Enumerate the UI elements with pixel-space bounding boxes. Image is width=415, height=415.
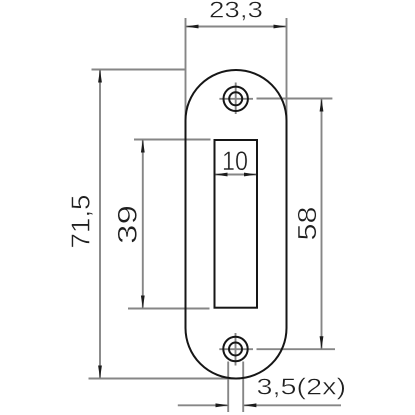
svg-text:3,5(2x): 3,5(2x) <box>257 374 347 400</box>
svg-text:10: 10 <box>222 146 248 176</box>
svg-text:23,3: 23,3 <box>209 0 263 23</box>
svg-text:39: 39 <box>113 205 143 244</box>
svg-text:58: 58 <box>294 207 322 241</box>
svg-text:71,5: 71,5 <box>68 195 96 249</box>
